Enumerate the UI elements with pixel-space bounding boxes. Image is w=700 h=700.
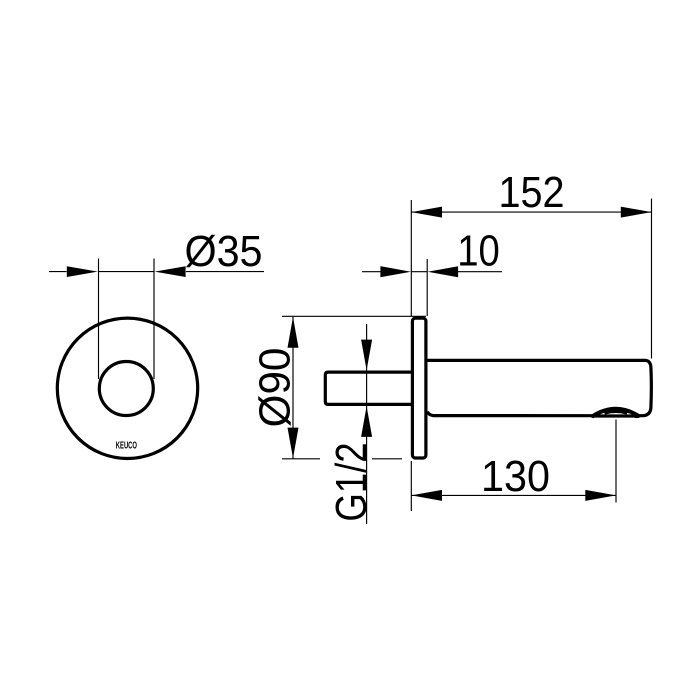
svg-text:Ø90: Ø90 — [251, 348, 300, 428]
svg-text:KEUCO: KEUCO — [116, 438, 137, 450]
svg-text:10: 10 — [457, 226, 500, 275]
svg-text:152: 152 — [498, 167, 564, 216]
svg-text:Ø35: Ø35 — [184, 227, 262, 275]
svg-text:G1/2: G1/2 — [327, 442, 376, 521]
svg-text:130: 130 — [481, 452, 550, 500]
